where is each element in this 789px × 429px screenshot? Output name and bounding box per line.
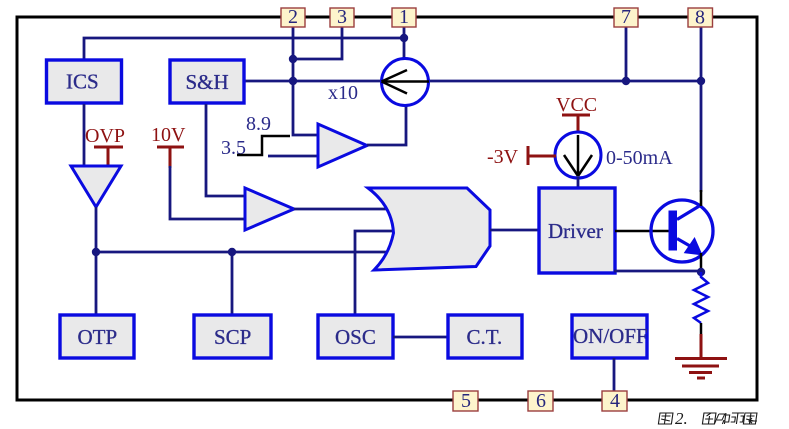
svg-text:ON/OFF: ON/OFF [573, 324, 648, 348]
current source I1 arrow [564, 135, 592, 176]
wire: net from pin1 to ICS top (y=38) [84, 38, 404, 62]
wire: S&H output to x10 source left [244, 80, 382, 83]
pin 8 [688, 7, 713, 29]
caption: figure title [658, 413, 757, 424]
current source I1 circle [555, 132, 601, 178]
label x10 [328, 82, 358, 104]
pin 3 [330, 6, 354, 28]
svg-text:OVP: OVP [85, 125, 125, 147]
node: junction pin2/pin3 net [289, 55, 297, 63]
pin 5 [453, 390, 478, 412]
block OTP [60, 315, 134, 358]
node: emitter junction [697, 268, 705, 276]
wire: comparator U3 output to OR gate [294, 208, 400, 211]
svg-text:4: 4 [610, 390, 620, 412]
wire: comparator U2 - input [268, 155, 318, 158]
svg-text:2: 2 [288, 6, 298, 28]
pin 6 [528, 390, 553, 412]
wire: OSC to OR gate input [355, 231, 398, 315]
wire: Driver bottom feedback to emitter node [614, 270, 701, 273]
svg-text:C.T.: C.T. [467, 325, 503, 349]
block Driver [539, 188, 615, 273]
svg-text:8.9: 8.9 [246, 113, 271, 135]
pin 1 [392, 6, 416, 28]
wire: OR gate output to Driver [490, 229, 539, 232]
x10 controlled source circle [382, 59, 429, 106]
svg-text:5: 5 [461, 390, 471, 412]
pin 4 [602, 390, 627, 412]
block S&H [170, 60, 244, 103]
wire: OSC to C.T. [393, 336, 448, 339]
block OSC [318, 315, 393, 358]
OR gate U4 [368, 188, 490, 270]
comparator U1 (OVP, pointing down) [71, 166, 121, 207]
node: junction pin2/S&H net [289, 77, 297, 85]
svg-text:ICS: ICS [66, 70, 99, 94]
svg-text:OTP: OTP [78, 325, 118, 349]
node: junction pin1/net [400, 34, 408, 42]
VCC supply bar [562, 115, 590, 135]
wire: emitter down to resistor node (black) [700, 253, 703, 272]
svg-text:3: 3 [337, 6, 347, 28]
resistor R1 [694, 272, 708, 323]
label VCC [556, 94, 597, 116]
ground [675, 334, 727, 378]
comparator U2 (hysteresis) [318, 124, 367, 167]
svg-text:2.: 2. [675, 409, 688, 428]
svg-text:S&H: S&H [186, 70, 229, 94]
comparator U3 [245, 188, 294, 230]
wire: pin2 stem down to comparator U2 + input [293, 26, 318, 135]
wire: low-side net OVP/SCP to OR gate [96, 251, 398, 254]
svg-text:0-50mA: 0-50mA [606, 147, 673, 169]
wire: S&H bottom to comparator U3 + input [206, 104, 245, 196]
label 10V [151, 124, 186, 146]
wire: comparator U2 output up to x10 source bottom [367, 104, 406, 145]
pin 2 [281, 6, 305, 28]
transistor Q1 circle [651, 200, 713, 262]
transistor Q1 collector lead [677, 190, 701, 220]
node: junction OVP net [92, 248, 100, 256]
transistor Q1 emitter lead with arrow [677, 239, 702, 255]
10V reference bar symbol [157, 147, 184, 168]
caption text 2. [675, 409, 688, 428]
svg-text:7: 7 [621, 6, 631, 28]
wire: pin1 stem down to x10 source top [403, 26, 406, 60]
svg-text:6: 6 [536, 390, 546, 412]
hysteresis step symbol [237, 136, 290, 155]
pin 7 [614, 6, 638, 28]
wire: pin7 stem [625, 26, 628, 81]
label 8.9 [246, 113, 271, 135]
label -3V [487, 146, 519, 168]
wire: pin3 stem to pin2 line [293, 26, 342, 59]
svg-text:8: 8 [695, 7, 705, 29]
block C.T. [448, 315, 522, 358]
wire: x10 source right to pin8 line [428, 80, 701, 83]
svg-text:x10: x10 [328, 82, 358, 104]
wire: OVP output down to OTP [95, 207, 98, 315]
label 3.5 [221, 137, 246, 159]
svg-text:10V: 10V [151, 124, 186, 146]
wire: ICS bottom to OVP comparator [83, 104, 86, 165]
label OVP [85, 125, 125, 147]
-3V bar and lead [528, 146, 556, 165]
svg-text:OSC: OSC [335, 325, 376, 349]
caption return mark [749, 418, 757, 423]
node: junction pin8 [697, 77, 705, 85]
wire: SCP stem [231, 252, 234, 315]
svg-text:-3V: -3V [487, 146, 519, 168]
block ON/OFF [572, 315, 648, 358]
wire: 10V reference to comparator U3 - input [170, 166, 245, 219]
OVP threshold bar symbol [94, 147, 123, 166]
node: junction SCP net [228, 248, 236, 256]
block SCP [194, 315, 271, 358]
svg-text:VCC: VCC [556, 94, 597, 116]
label 0-50mA [606, 147, 673, 169]
node: junction pin7 [622, 77, 630, 85]
wire: current source to Driver top [577, 177, 580, 188]
svg-text:1: 1 [399, 6, 409, 28]
wire: pin8 stem and collector line down to transistor [700, 26, 703, 192]
wire: ON/OFF stem to pin4 [613, 358, 616, 392]
transistor Q1 base bar [669, 211, 678, 251]
block ICS [47, 60, 122, 103]
x10 source arrow [382, 70, 430, 94]
wire: resistor to ground [700, 323, 703, 334]
wire: Driver to transistor base (black) [615, 230, 670, 233]
svg-text:SCP: SCP [214, 325, 251, 349]
svg-text:Driver: Driver [548, 219, 603, 243]
